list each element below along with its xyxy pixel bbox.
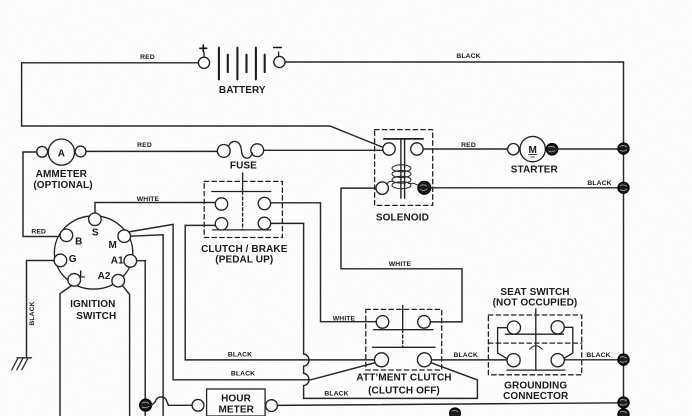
svg-text:L: L [79,270,85,281]
svg-text:SWITCH: SWITCH [76,311,116,322]
wire white clutch brake to attachment clutch [271,203,377,322]
svg-text:SEAT SWITCH: SEAT SWITCH [500,287,569,298]
svg-text:A1: A1 [111,256,124,267]
svg-text:BLACK: BLACK [231,370,255,377]
hour meter HM1 [192,389,277,416]
svg-text:IGNITION: IGNITION [70,299,115,310]
svg-text:BLACK: BLACK [586,352,610,359]
stud terminal bottom (dark, clipped) [450,408,461,416]
junction hour meter feed (dark) [140,399,152,411]
wire black ignition G to ground [27,261,55,358]
wire ignition A2 down [122,285,129,416]
svg-text:A: A [58,148,65,159]
svg-text:BLACK: BLACK [324,390,348,397]
svg-text:M: M [109,240,117,251]
svg-text:METER: METER [218,405,254,416]
seat switch S4 [488,309,581,375]
svg-text:(PEDAL UP): (PEDAL UP) [215,254,273,265]
wire black ignition M to attachment clutch [129,224,376,379]
scan speckle texture [0,0,1,1]
svg-text:CONNECTOR: CONNECTOR [503,391,569,402]
solenoid output stud (dark) [418,181,431,194]
svg-text:WHITE: WHITE [137,196,160,203]
ignition terminal letters [69,228,124,283]
clutch brake switch S2 [204,173,282,238]
junction bottom-bus (dark, clipped) [618,409,629,416]
ignition switch S1 [54,213,137,289]
wire white ignition S to clutch brake [95,203,216,214]
wire fuse to solenoid [264,149,383,151]
svg-text:ATT’MENT CLUTCH: ATT’MENT CLUTCH [356,373,451,384]
svg-text:RED: RED [140,54,155,61]
junction starter-bus (dark) [618,143,629,154]
svg-text:(CLUTCH OFF): (CLUTCH OFF) [368,386,440,397]
wire white solenoid coil to attachment clutch [341,188,462,322]
wire red ammeter to ignition B [23,152,60,237]
starter stud (dark) [546,144,557,155]
wire red battery positive to left rail to solenoid [22,63,384,148]
wire right bus vertical [623,62,625,416]
svg-text:BLACK: BLACK [456,53,480,60]
svg-text:BLACK: BLACK [29,301,36,325]
wire starter to right bus [558,148,624,150]
solenoid K1 [375,130,433,206]
attachment clutch switch S3 [366,306,442,370]
wire ignition M to inner vertical [131,235,163,416]
wire hour meter left with hop [151,397,192,405]
svg-text:RED: RED [137,142,152,149]
svg-text:BLACK: BLACK [587,180,611,187]
svg-text:RED: RED [31,229,46,236]
wire black attachment clutch to seat switch [431,359,507,361]
starter motor M2 [508,136,546,161]
wire ignition L down [60,285,72,416]
wire red ammeter to fuse [86,150,217,152]
ground chassis symbol [12,358,32,370]
svg-text:BATTERY: BATTERY [219,85,266,96]
wire black solenoid stud to right bus [431,187,624,189]
junction seat-bus (dark) [618,354,629,365]
svg-text:SOLENOID: SOLENOID [376,212,429,223]
svg-text:WHITE: WHITE [389,261,412,268]
svg-text:A2: A2 [98,271,111,282]
junction solenoid-bus (dark) [618,182,629,193]
junction hour-bus (dark) [618,397,629,408]
svg-text:HOUR: HOUR [221,393,252,404]
svg-text:B: B [75,236,82,247]
svg-text:FUSE: FUSE [230,160,257,171]
svg-text:RED: RED [461,142,476,149]
svg-text:S: S [92,228,99,239]
wire black clutch brake lower-right with hops to attachment clutch [271,223,478,398]
ammeter M1 [37,139,86,165]
svg-text:(NOT OCCUPIED): (NOT OCCUPIED) [493,298,578,309]
svg-text:BLACK: BLACK [228,352,252,359]
fuse F1 [217,142,263,159]
svg-text:WHITE: WHITE [333,316,356,323]
wire hour meter to right bus [278,403,624,406]
wire black battery negative to right bus [285,61,623,63]
svg-text:BLACK: BLACK [454,352,478,359]
wire ignition A1 down [137,261,146,416]
svg-text:G: G [69,254,77,265]
svg-text:(OPTIONAL): (OPTIONAL) [33,180,92,191]
battery BT1 [198,45,285,79]
svg-text:STARTER: STARTER [511,164,559,175]
wire black seat switch to right bus [564,359,623,361]
wire black clutch brake lower-left to attachment clutch [185,225,374,360]
wire red solenoid to starter [423,148,507,150]
svg-text:AMMETER: AMMETER [36,169,88,180]
